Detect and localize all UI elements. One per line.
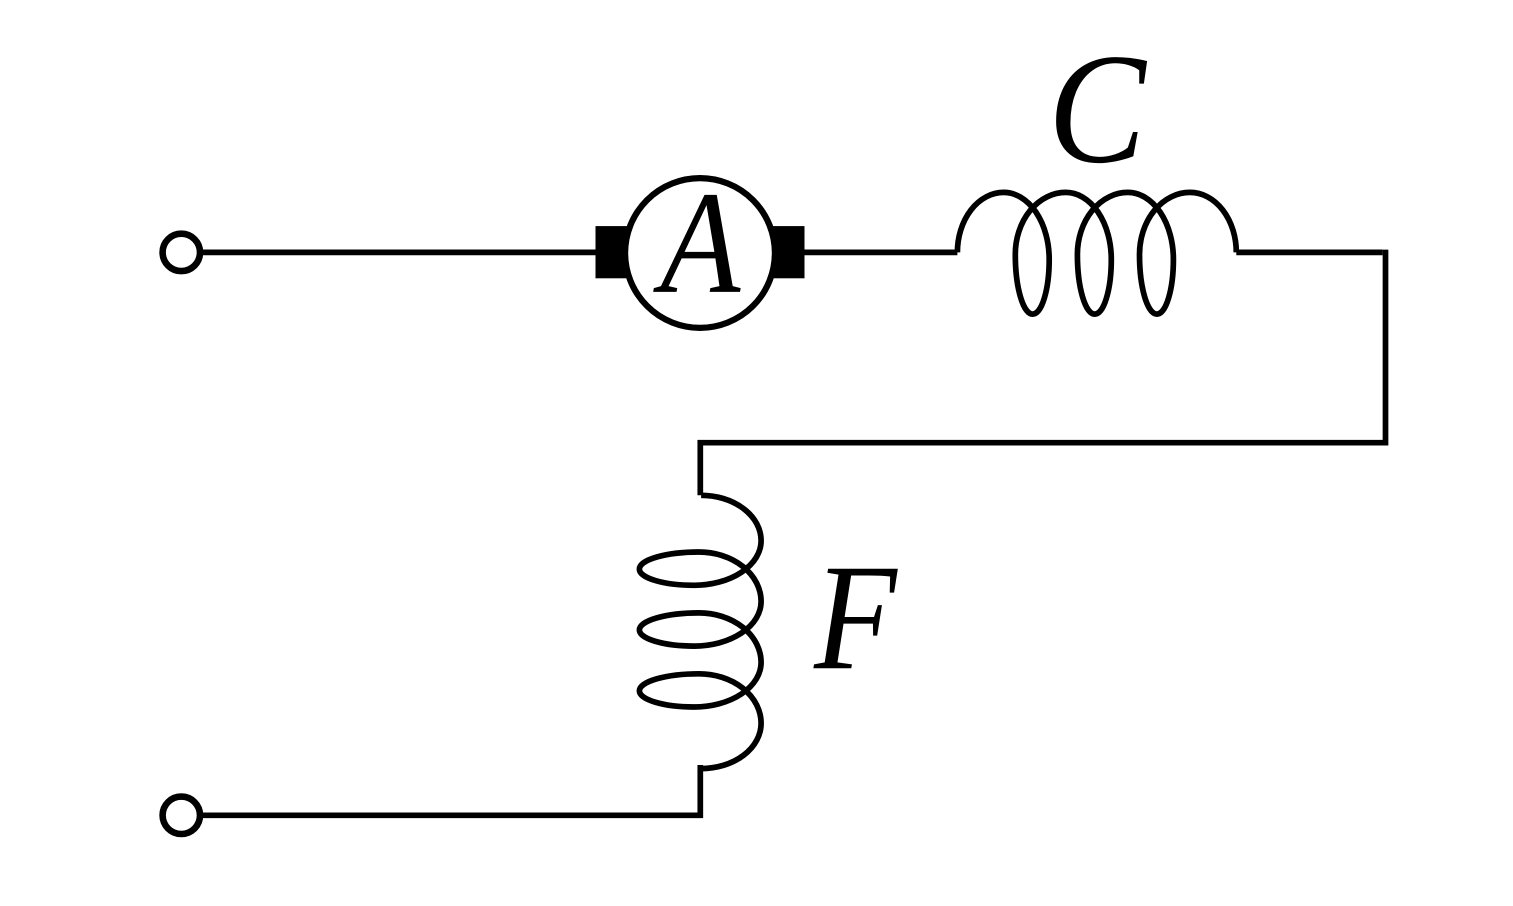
svg-text:A: A [653,162,741,325]
wire: ammeter to inductor C [804,250,957,256]
wire: inductor C to right corner [1236,250,1382,256]
ammeter U1 body [625,178,775,328]
wire: T1 to ammeter left pad [203,250,600,256]
svg-text:C: C [1048,21,1148,196]
svg-text:F: F [813,534,899,702]
inductor C (armature winding) [957,192,1236,314]
ammeter left pad [596,226,651,278]
terminal T1 (top-left input) [163,234,200,271]
inductor F (field winding) [639,495,761,768]
wire: right vertical drop [700,250,1385,496]
wire: F to bottom-left terminal [200,765,700,815]
terminal T2 (bottom-left input) [163,797,200,834]
ammeter right pad [750,226,805,278]
